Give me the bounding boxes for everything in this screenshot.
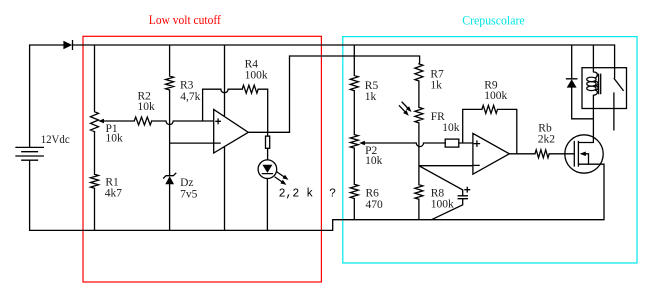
svg-text:1k: 1k	[430, 79, 442, 91]
svg-text:10k: 10k	[442, 122, 460, 134]
svg-text:100k: 100k	[245, 69, 268, 81]
svg-text:Dz: Dz	[180, 177, 193, 189]
svg-text:?: ?	[329, 187, 336, 200]
svg-text:4,7k: 4,7k	[180, 91, 200, 103]
svg-text:100k: 100k	[484, 90, 507, 102]
svg-text:1k: 1k	[365, 91, 377, 103]
svg-text:R3: R3	[180, 80, 194, 92]
svg-text:2,2 k: 2,2 k	[279, 187, 314, 200]
svg-text:100k: 100k	[431, 199, 454, 211]
svg-text:4k7: 4k7	[105, 187, 123, 199]
svg-text:Crepuscolare: Crepuscolare	[462, 13, 525, 28]
svg-text:Low volt cutoff: Low volt cutoff	[149, 12, 222, 27]
svg-text:10k: 10k	[365, 155, 383, 167]
svg-text:470: 470	[366, 199, 384, 211]
svg-text:12Vdc: 12Vdc	[41, 134, 70, 146]
svg-text:2k2: 2k2	[538, 134, 556, 146]
svg-text:7v5: 7v5	[180, 188, 198, 200]
svg-text:10k: 10k	[106, 133, 124, 145]
svg-text:R6: R6	[366, 188, 380, 200]
svg-text:10k: 10k	[138, 101, 156, 113]
